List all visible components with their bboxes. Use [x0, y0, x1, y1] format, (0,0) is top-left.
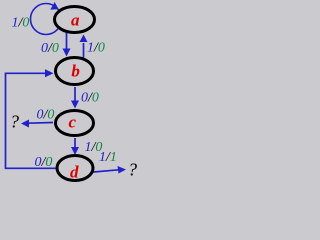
- arrowhead b->c: [71, 101, 79, 109]
- svg-text:?: ?: [128, 160, 137, 180]
- arrowhead c->?: [21, 120, 29, 128]
- svg-text:0/0: 0/0: [35, 155, 53, 170]
- wire d->b (left return path): [6, 73, 57, 168]
- svg-text:1/0: 1/0: [12, 15, 30, 30]
- state d: [57, 156, 93, 181]
- wire d->? (right): [94, 170, 120, 172]
- wire b->c: [74, 87, 76, 102]
- svg-text:1/0: 1/0: [87, 41, 105, 56]
- arrowhead b->a: [80, 35, 88, 43]
- svg-text:a: a: [71, 10, 80, 29]
- svg-text:?: ?: [10, 112, 19, 132]
- svg-text:0/0: 0/0: [81, 91, 99, 106]
- self-loop on state a: [31, 4, 62, 35]
- state b: [56, 58, 94, 85]
- arrowhead self-loop: [50, 2, 58, 10]
- wire a->b: [66, 33, 68, 50]
- svg-text:1/1: 1/1: [99, 150, 117, 165]
- state c: [56, 111, 94, 136]
- state a: [55, 7, 95, 33]
- wire c->? (left): [28, 122, 53, 125]
- wire b->a: [83, 43, 85, 58]
- arrowhead c->d: [71, 147, 79, 155]
- svg-text:b: b: [71, 62, 80, 81]
- svg-text:c: c: [69, 112, 77, 131]
- svg-text:0/0: 0/0: [41, 41, 59, 56]
- svg-text:0/0: 0/0: [37, 108, 55, 123]
- arrowhead d->?: [118, 166, 127, 174]
- wire c->d: [74, 138, 76, 148]
- svg-text:d: d: [70, 162, 79, 181]
- arrowhead a->b: [63, 49, 71, 57]
- arrowhead d->b: [45, 69, 54, 77]
